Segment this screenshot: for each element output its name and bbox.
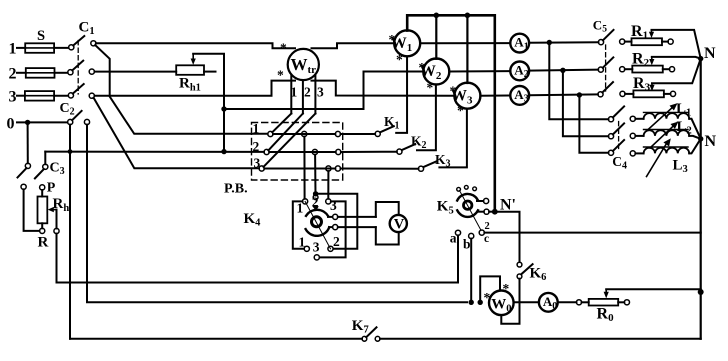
junction A2 tap bbox=[560, 68, 565, 73]
node 3 wire bbox=[17, 95, 25, 97]
wire phase2 C1 to Rh1 bbox=[95, 71, 177, 73]
terminal R bbox=[40, 228, 45, 233]
node N2 junction bbox=[698, 136, 703, 141]
svg-text:1: 1 bbox=[297, 201, 304, 216]
wire left terminal to R bbox=[24, 189, 40, 231]
wire C2 contact down to measuring line bbox=[87, 125, 467, 303]
junction bus W3 bbox=[465, 13, 471, 19]
junction R0 on rail bbox=[698, 289, 704, 295]
junction W0 voltage tap bbox=[478, 300, 483, 305]
wire Wtr out right phase3 bbox=[312, 81, 455, 96]
switch C1 pole3 bbox=[68, 84, 94, 98]
svg-text:N': N' bbox=[500, 197, 516, 214]
voltage bus of W1-W3 bbox=[407, 15, 495, 211]
svg-text:a: a bbox=[450, 230, 457, 245]
switch C1 pole1 bbox=[69, 36, 96, 50]
wire L2 to N2 bbox=[689, 136, 701, 139]
terminal PB line1 mid bbox=[302, 131, 307, 136]
wire Rh1 wiper to junction bbox=[193, 54, 224, 152]
wire 0 to C3 bbox=[27, 123, 29, 164]
switch C4 pole1 bbox=[608, 106, 624, 121]
switch K1 bbox=[375, 57, 407, 137]
svg-text:N: N bbox=[705, 133, 717, 150]
ammeter A1 bbox=[510, 34, 529, 53]
wire phase1 C1 to Wtr bbox=[96, 43, 295, 48]
junction 0-rail bbox=[25, 120, 30, 125]
switch C4 pole2 bbox=[608, 123, 624, 138]
svg-text:2: 2 bbox=[485, 221, 490, 232]
svg-text:2: 2 bbox=[333, 234, 340, 249]
svg-text:1: 1 bbox=[9, 41, 17, 58]
switch K6 bbox=[517, 262, 533, 279]
switch C3 pole1 bbox=[18, 163, 31, 177]
wattmeter W3 bbox=[454, 83, 480, 109]
junction A1 tap bbox=[547, 40, 552, 45]
C1 gang dashed link bbox=[77, 41, 79, 95]
wire W2 to A2 bbox=[449, 70, 510, 72]
terminal a bbox=[455, 230, 460, 235]
wire phase3 C1 to Wtr bbox=[95, 81, 296, 96]
wire PB to K3 bbox=[341, 168, 419, 170]
wire b down to measuring line bbox=[470, 239, 472, 303]
wire C2 pivot down to bottom rail bbox=[69, 125, 71, 339]
wire PB2 line (0 potential) bbox=[45, 151, 264, 153]
wire A3 tap down to C4 bbox=[579, 95, 608, 153]
junction wiper/W2 feed bbox=[221, 106, 226, 111]
wire A0 to R0 bbox=[558, 301, 577, 303]
junction bottom-rail tap bbox=[68, 149, 73, 154]
svg-text:*: * bbox=[280, 41, 287, 56]
wire R2 wiper to N bbox=[652, 57, 701, 59]
svg-text:2: 2 bbox=[253, 139, 260, 154]
svg-text:3: 3 bbox=[9, 89, 17, 106]
Wtr voltage leg 3 bbox=[314, 75, 316, 114]
wire PB2 down to K4 bbox=[314, 155, 316, 195]
wire A3 to C5 bbox=[529, 93, 598, 96]
inductor L1 bbox=[630, 103, 689, 130]
svg-text:3: 3 bbox=[317, 85, 324, 100]
wattmeter W1 bbox=[394, 30, 420, 56]
wire Wtr out right phase1 bbox=[312, 43, 395, 48]
wire W0 to A0 bbox=[514, 301, 539, 303]
svg-text:3: 3 bbox=[254, 155, 261, 170]
wattmeter W0 bbox=[489, 291, 514, 316]
svg-text:*: * bbox=[277, 68, 284, 83]
wire L3 to N2 bbox=[689, 139, 701, 154]
fuse S row2 bbox=[26, 68, 68, 78]
wire phase3 tap to PB3 bbox=[94, 98, 259, 169]
wire A2 tap down to C4 bbox=[563, 70, 609, 136]
svg-text:P.B.: P.B. bbox=[224, 182, 248, 197]
terminal P bbox=[40, 185, 45, 190]
wire PB3 down to K4 bbox=[327, 171, 329, 199]
svg-text:*: * bbox=[503, 281, 510, 296]
switch C5 pole3 bbox=[598, 82, 625, 97]
Wtr voltage leg 1 bbox=[290, 76, 292, 114]
wire K5 to N' bbox=[489, 211, 495, 213]
svg-text:V: V bbox=[394, 216, 405, 232]
wire W1 to A1 bbox=[420, 42, 510, 44]
inductor L2 bbox=[630, 122, 689, 149]
node N junction bbox=[698, 56, 703, 61]
bottom rail left segment bbox=[70, 338, 362, 340]
switch C2 bbox=[68, 111, 90, 125]
rheostat R3 bbox=[625, 83, 676, 97]
switch K2 bbox=[397, 85, 436, 155]
node N' junction bbox=[492, 209, 498, 215]
voltmeter V loop wires bbox=[338, 202, 399, 245]
ammeter A3 bbox=[510, 86, 529, 105]
wire leg1 to PB terminal 1 bbox=[272, 114, 291, 133]
node 2 wire bbox=[17, 72, 26, 74]
P.B. dashed box bbox=[252, 123, 343, 181]
wire Rh wiper to terminal a bbox=[57, 234, 459, 283]
terminal R0 left bbox=[576, 300, 581, 305]
wire W0 voltage loop top bbox=[480, 276, 500, 302]
terminal b bbox=[469, 233, 474, 238]
wire PB1 down to K4 bbox=[303, 137, 305, 199]
rheostat R1 bbox=[625, 30, 673, 45]
svg-text:*: * bbox=[396, 52, 403, 67]
wire PB line3 right bbox=[264, 168, 335, 170]
svg-text:R: R bbox=[38, 234, 49, 250]
junction A3 tap bbox=[577, 92, 582, 97]
svg-text:*: * bbox=[419, 60, 426, 75]
ammeter A2 bbox=[510, 62, 529, 81]
neutral rail right bbox=[700, 59, 702, 339]
svg-text:2: 2 bbox=[9, 66, 17, 83]
terminal PB line1 right bbox=[335, 131, 340, 136]
terminal PB line3 right bbox=[335, 166, 340, 171]
inductor L3 bbox=[630, 138, 689, 176]
wire PB to K2 bbox=[341, 151, 397, 153]
svg-text:1: 1 bbox=[299, 235, 306, 250]
wire PB to K1 bbox=[341, 133, 376, 135]
svg-text:*: * bbox=[450, 83, 457, 98]
wire PB line2 right bbox=[269, 151, 336, 153]
svg-text:P: P bbox=[47, 181, 56, 196]
svg-text:0: 0 bbox=[7, 116, 15, 133]
rheostat Rh1 bbox=[176, 54, 215, 75]
wire C3 to PB2 line bbox=[44, 152, 46, 165]
svg-text:2: 2 bbox=[312, 195, 319, 210]
fuse S row3 bbox=[25, 91, 68, 101]
terminal PB 1 bbox=[268, 131, 273, 136]
C4 gang dashed link bbox=[618, 122, 620, 151]
terminal PB 2 bbox=[264, 149, 269, 154]
wire W3 to A3 bbox=[480, 95, 510, 97]
Wtr voltage leg 2 bbox=[302, 80, 304, 114]
bottom rail right segment bbox=[380, 338, 701, 340]
wire A1 to C5 bbox=[529, 41, 598, 44]
wire leg2 to PB terminal 2 bbox=[268, 114, 303, 151]
potentiometer Rh bbox=[38, 190, 48, 228]
switch K7 bbox=[362, 327, 380, 341]
wire A1 tap down to C4 bbox=[549, 43, 608, 120]
wattmeter Wtr bbox=[288, 49, 319, 80]
junction b on measuring line bbox=[469, 300, 474, 305]
fuse S row1 bbox=[25, 43, 68, 53]
terminal Rh wiper bbox=[54, 228, 59, 233]
terminal R0 right bbox=[624, 300, 629, 305]
svg-text:2: 2 bbox=[304, 85, 311, 100]
svg-text:*: * bbox=[484, 290, 491, 305]
node 0 wire bbox=[17, 121, 68, 123]
rheostat R2 bbox=[625, 57, 675, 73]
wire R3 wiper to N bbox=[652, 59, 701, 84]
terminal PB line2 right bbox=[336, 149, 341, 154]
Rh wiper arrow bbox=[48, 207, 57, 229]
wire leg3 to PB terminal 3 bbox=[264, 114, 316, 167]
switch K3 bbox=[418, 109, 467, 171]
svg-text:S: S bbox=[37, 28, 45, 44]
wattmeter W2 bbox=[423, 59, 449, 85]
terminal below C3 left bbox=[21, 184, 26, 189]
svg-text:1: 1 bbox=[291, 85, 298, 100]
terminal c bbox=[479, 230, 484, 235]
terminal PB 3 bbox=[259, 166, 264, 171]
rotary switch K5 bbox=[457, 185, 489, 230]
junction bus W2 bbox=[434, 13, 440, 19]
terminal PB line3 mid bbox=[326, 166, 331, 171]
wire A2 to C5 bbox=[529, 69, 598, 72]
svg-text:c: c bbox=[484, 233, 489, 245]
wire PB line1 bbox=[273, 133, 335, 135]
switch C1 pole2 bbox=[68, 61, 95, 75]
wire c to neutral rail bbox=[484, 232, 700, 234]
junction on PB2 line bbox=[221, 149, 226, 154]
rotary switch K4 bbox=[293, 191, 358, 260]
wire W2 feed bbox=[224, 72, 423, 110]
svg-text:b: b bbox=[463, 236, 471, 251]
svg-text:1: 1 bbox=[253, 121, 260, 136]
switch C4 pole3 bbox=[608, 140, 624, 155]
svg-text:N: N bbox=[704, 45, 716, 62]
voltmeter V bbox=[390, 215, 407, 232]
switch C5 pole1 bbox=[598, 30, 624, 45]
C5 gang dashed link bbox=[605, 45, 607, 91]
svg-text:3: 3 bbox=[313, 240, 320, 255]
svg-text:*: * bbox=[389, 32, 396, 47]
wire N' to K6 bbox=[495, 212, 520, 262]
wire L1 to N2 bbox=[689, 119, 701, 139]
ammeter A0 bbox=[539, 293, 558, 312]
terminal PB line2 mid bbox=[312, 149, 317, 154]
rheostat R0 bbox=[582, 289, 625, 305]
wire R1 wiper to N bbox=[652, 30, 701, 59]
wire phase1 tap to PB1 bbox=[95, 45, 267, 134]
wire R0 wiper to neutral rail bbox=[606, 288, 701, 290]
svg-text:*: * bbox=[427, 80, 434, 95]
svg-text:3: 3 bbox=[330, 198, 337, 213]
node 1 (phase input label wire) bbox=[17, 47, 25, 49]
svg-text:*: * bbox=[457, 103, 464, 118]
switch C3 pole2 bbox=[35, 164, 48, 178]
wire K6 to W0 voltage coil bbox=[501, 279, 519, 324]
switch C5 pole2 bbox=[598, 57, 625, 72]
